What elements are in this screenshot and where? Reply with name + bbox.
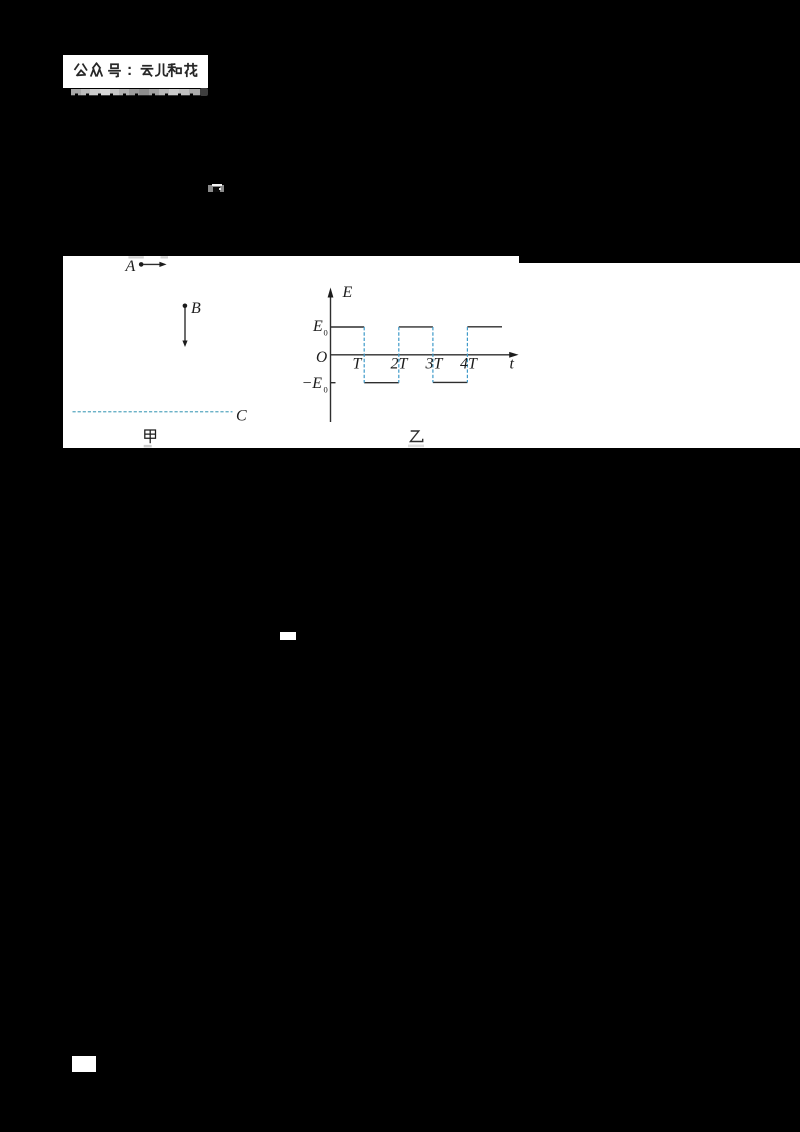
svg-text:O: O [316, 349, 327, 366]
svg-text:3T: 3T [425, 356, 444, 373]
svg-text:4T: 4T [460, 356, 478, 373]
svg-text:t: t [510, 356, 515, 373]
svg-text:T: T [353, 356, 363, 373]
svg-text:2T: 2T [391, 356, 409, 373]
svg-text:E: E [342, 284, 353, 301]
svg-text:0: 0 [324, 328, 328, 338]
svg-text:E: E [312, 318, 323, 335]
svg-text:A: A [125, 258, 136, 275]
svg-text:C: C [236, 407, 247, 424]
svg-text:B: B [191, 300, 201, 317]
svg-text:−E: −E [302, 375, 323, 392]
svg-text:0: 0 [324, 385, 328, 395]
